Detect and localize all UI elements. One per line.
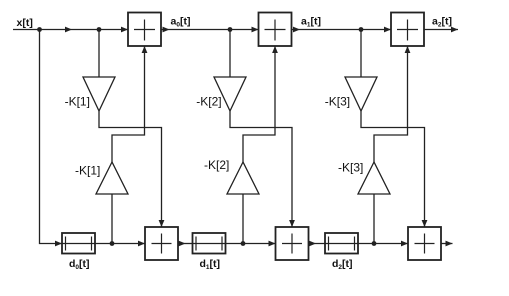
- adder U2 (bottom summing node, stage 1): [145, 227, 178, 260]
- wire gain -K[3] lower output up to adder U5: [374, 46, 410, 162]
- wire delay D0 to bottom adder stage 1: [95, 241, 145, 247]
- adder U3 (top summing node, stage 2): [259, 13, 292, 47]
- wire bottom adder 1 to delay D1: [178, 241, 193, 247]
- svg-text:-K[1]: -K[1]: [65, 95, 90, 109]
- svg-text:-K[3]: -K[3]: [325, 95, 350, 109]
- wire junction down to gain -K[3] upper: [360, 30, 362, 78]
- wire junction down to gain -K[1] upper: [98, 30, 100, 78]
- wire input x[t] to adder U1: [13, 27, 128, 33]
- node bottom junction stage 1: [110, 241, 115, 246]
- svg-text:d2[t]: d2[t]: [332, 258, 353, 271]
- wire input tap down to delay D0: [40, 30, 63, 247]
- svg-text:-K[2]: -K[2]: [204, 158, 229, 172]
- svg-text:-K[1]: -K[1]: [75, 164, 100, 178]
- delay D2 (unit delay d1[t]): [193, 233, 226, 254]
- wire delay D2 to bottom adder stage 3: [358, 241, 408, 247]
- svg-text:a0[t]: a0[t]: [171, 15, 191, 28]
- wire bottom adder 2 to delay D2: [309, 241, 326, 247]
- svg-text:-K[2]: -K[2]: [196, 95, 221, 109]
- node bottom junction stage 2: [241, 241, 246, 246]
- delay D1 (unit delay d0[t]): [62, 233, 95, 254]
- wire bottom junction up to gain -K[3] lower: [373, 194, 375, 244]
- wire delay D1 to bottom adder stage 2: [226, 241, 276, 247]
- node top junction stage 1: [97, 27, 102, 32]
- delay D3 (unit delay d2[t]): [325, 233, 358, 254]
- adder U5 (top summing node, stage 3): [391, 13, 424, 47]
- gain -K[3] upper (amplifier triangle, pointing down): [345, 77, 377, 111]
- wire adder U3 output to adder U5 (top, with a1 junction tap): [292, 27, 392, 33]
- gain -K[3] lower (amplifier triangle, pointing up): [358, 162, 390, 194]
- svg-text:a1[t]: a1[t]: [301, 15, 321, 28]
- wire junction down to gain -K[2] upper: [229, 30, 231, 78]
- node top junction stage 2: [228, 27, 233, 32]
- wire bottom junction up to gain -K[1] lower: [111, 194, 113, 244]
- adder U6 (bottom summing node, stage 3): [408, 227, 441, 260]
- gain -K[1] upper (amplifier triangle, pointing down): [83, 77, 115, 111]
- svg-text:a2[t]: a2[t]: [432, 15, 452, 28]
- svg-text:-K[3]: -K[3]: [338, 160, 363, 174]
- wire bottom junction up to gain -K[2] lower: [242, 194, 244, 244]
- wire gain -K[1] upper output down to adder U2: [99, 111, 164, 227]
- svg-text:x[t]: x[t]: [17, 17, 33, 29]
- wire gain -K[2] upper output down to adder U4: [230, 111, 295, 227]
- adder U1 (top summing node, stage 1): [128, 13, 161, 47]
- wire gain -K[3] upper output down to adder U6: [361, 111, 427, 227]
- wire adder U1 output to adder U3 (top, with a0 junction tap): [161, 27, 259, 33]
- wire bottom adder 3 output: [441, 241, 453, 247]
- svg-text:d1[t]: d1[t]: [200, 258, 221, 271]
- node input tap junction: [37, 27, 42, 32]
- wire gain -K[1] lower output up to adder U1: [112, 46, 147, 162]
- node bottom junction stage 3: [372, 241, 377, 246]
- svg-text:d0[t]: d0[t]: [69, 258, 90, 271]
- wire gain -K[2] lower output up to adder U3: [243, 46, 278, 162]
- wire adder U5 output a2[t]: [424, 27, 458, 33]
- gain -K[2] lower (amplifier triangle, pointing up): [227, 162, 259, 194]
- node top junction stage 3: [359, 27, 364, 32]
- gain -K[1] lower (amplifier triangle, pointing up): [96, 162, 128, 194]
- gain -K[2] upper (amplifier triangle, pointing down): [214, 77, 246, 111]
- adder U4 (bottom summing node, stage 2): [276, 227, 309, 260]
